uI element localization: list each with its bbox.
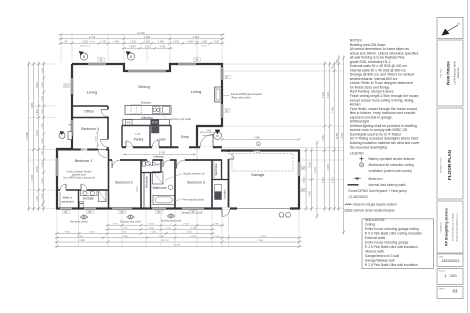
svg-text:Email rpdraughting@xtra.co.nz: Email rpdraughting@xtra.co.nz <box>456 213 459 242</box>
right dimension chain garage c <box>316 141 319 219</box>
bathroom shower <box>153 172 164 185</box>
svg-text:SCALE: SCALE <box>439 269 446 272</box>
window: bathroom bottom wall <box>152 207 166 209</box>
svg-text:INSULATION: INSULATION <box>365 218 385 222</box>
eave outlet symbol 2 <box>127 215 135 219</box>
window tag E2 bottom <box>87 210 94 214</box>
right page edge line <box>467 0 469 313</box>
svg-text:5 800: 5 800 <box>304 176 306 182</box>
annotation: gas fireplace <box>222 94 230 96</box>
svg-text:Living: Living <box>87 90 97 95</box>
title block cell: north arrow <box>437 18 463 39</box>
svg-text:Living: Living <box>191 89 201 94</box>
interior wall: walk-in/ensuite top <box>57 189 109 191</box>
svg-text:3 265: 3 265 <box>191 227 197 229</box>
svg-text:1 : 100: 1 : 100 <box>444 273 457 278</box>
door: garage internal <box>227 152 234 159</box>
svg-text:External walls: External walls <box>365 236 386 240</box>
eave outlet symbol 1 <box>80 215 88 219</box>
window: ensuite bottom wall <box>84 207 96 209</box>
door: bedroom 2 <box>112 159 120 168</box>
svg-text:1 270: 1 270 <box>112 223 118 225</box>
svg-text:14 460: 14 460 <box>337 132 339 140</box>
svg-text:6 100: 6 100 <box>315 166 317 172</box>
window tag E9 top <box>98 58 105 62</box>
wire: porch edge lines at entry <box>197 145 222 147</box>
svg-text:B: B <box>83 55 85 59</box>
svg-text:Mechanical Air extraction ceil: Mechanical Air extraction ceiling <box>369 163 415 167</box>
dim: hallway 5330 <box>123 153 196 155</box>
meter box symbol at left wall <box>59 131 72 140</box>
svg-text:Entry: Entry <box>181 135 189 139</box>
svg-text:4 560: 4 560 <box>77 236 83 238</box>
svg-text:Bathroom: Bathroom <box>153 186 167 190</box>
hot water cylinder (dark box, linen) <box>152 127 160 134</box>
window: living1 top wall <box>88 63 106 65</box>
window tag E8 top <box>194 58 201 62</box>
svg-text:Meter box: Meter box <box>369 177 384 181</box>
door: WC <box>147 159 153 166</box>
svg-text:1 800: 1 800 <box>148 227 154 229</box>
insulation box <box>362 219 434 269</box>
right dimension chain garage a <box>305 148 308 211</box>
svg-text:Wardrobe: Wardrobe <box>214 163 218 175</box>
legend meter box symbol <box>354 178 362 181</box>
svg-text:11 680: 11 680 <box>342 132 344 140</box>
svg-text:Garage: Garage <box>251 172 265 177</box>
svg-text:1 400: 1 400 <box>42 96 44 102</box>
svg-text:1 200: 1 200 <box>42 162 44 168</box>
interior wall: hallway top (load bearing) <box>122 146 222 148</box>
svg-text:N: N <box>457 22 459 26</box>
svg-text:2 270: 2 270 <box>122 227 128 229</box>
title block cell: company <box>437 201 463 253</box>
interior wall: office/bedroom4 divider <box>72 117 108 119</box>
ensuite shower <box>99 191 107 202</box>
svg-text:7 010: 7 010 <box>254 151 261 154</box>
svg-text:DRAWN BY: DRAWN BY <box>439 221 442 232</box>
svg-text:Ensuite: Ensuite <box>83 197 94 201</box>
kitchen back counter <box>123 119 170 125</box>
interior wall: walk-in/ensuite divider <box>78 190 80 209</box>
svg-text:Skylights: Skylights <box>141 101 152 105</box>
svg-text:E15: E15 <box>301 168 306 170</box>
svg-text:Entire house including garage: Entire house including garage <box>365 240 409 244</box>
interior wall: pantry/linen divider <box>149 126 151 148</box>
WC toilet <box>143 161 146 166</box>
svg-text:3 265: 3 265 <box>190 236 196 238</box>
svg-text:1 960: 1 960 <box>64 232 70 234</box>
interior wall: office-bedroom4 right <box>107 106 109 150</box>
door: office opening <box>101 109 109 117</box>
svg-text:3 150: 3 150 <box>82 41 88 43</box>
ensuite vanity + basins <box>81 191 98 196</box>
interior wall: bedroom2 wardrobe strip <box>143 173 145 209</box>
svg-text:1 900: 1 900 <box>42 178 44 184</box>
svg-text:1 400: 1 400 <box>187 41 193 43</box>
entry services marker <box>202 135 213 137</box>
extension lines right <box>223 63 344 65</box>
svg-text:1 400: 1 400 <box>135 134 141 136</box>
svg-text:Ph 03 448 8345 (027 433556): Ph 03 448 8345 (027 433556) <box>453 213 455 241</box>
svg-text:Dining: Dining <box>138 84 149 89</box>
svg-text:Ducting eave outlet: Ducting eave outlet <box>120 221 141 224</box>
svg-text:8 250: 8 250 <box>328 163 330 169</box>
interior wall: bedroom3 wardrobe right <box>221 160 223 180</box>
right dimension chain 4 <box>337 56 340 212</box>
svg-text:4 760: 4 760 <box>37 165 39 171</box>
svg-text:7 280: 7 280 <box>30 102 34 109</box>
door: front entry <box>200 134 213 148</box>
exterior wall: main house outline <box>57 64 299 209</box>
right dimension chain 1 <box>323 62 326 212</box>
svg-text:Bedroom 1: Bedroom 1 <box>75 159 93 163</box>
svg-text:03: 03 <box>453 289 458 294</box>
window: living2 right wall <box>221 67 223 80</box>
svg-text:1 100: 1 100 <box>42 193 44 199</box>
svg-text:4 180: 4 180 <box>186 232 192 234</box>
window: living1 left wall <box>71 78 73 94</box>
svg-text:6 920: 6 920 <box>260 236 266 238</box>
svg-text:4 400: 4 400 <box>37 81 39 87</box>
svg-text:Internal walls: Internal walls <box>365 249 385 253</box>
svg-text:R 2.6 Pink Batts Ultra wall in: R 2.6 Pink Batts Ultra wall insulation <box>365 263 418 267</box>
legend smoke detector symbol <box>359 156 364 161</box>
svg-text:2 110: 2 110 <box>137 185 139 191</box>
annotation: free standing bath <box>175 199 181 202</box>
svg-text:2 900: 2 900 <box>310 190 312 196</box>
left dimension chain 4 <box>42 62 45 212</box>
left dimension chain 2 <box>32 62 35 212</box>
door: bedroom 1 <box>98 148 106 157</box>
door: bedroom 4 opening <box>101 139 110 147</box>
title block cell: scale <box>437 269 463 285</box>
window: bedroom3 bottom wall <box>182 207 204 209</box>
svg-text:Alexandra: Alexandra <box>457 67 460 78</box>
cladding cedar symbol <box>345 210 353 211</box>
svg-text:1 900: 1 900 <box>206 129 213 132</box>
svg-text:F/R: F/R <box>127 122 131 124</box>
dim: entry 1900 <box>200 131 218 134</box>
svg-text:Garage/bedroom 3 wall: Garage/bedroom 3 wall <box>365 254 400 258</box>
title block cell: drawing title <box>437 108 463 199</box>
svg-text:the recessed downlights): the recessed downlights) <box>350 145 388 149</box>
window: garage right wall <box>298 162 300 176</box>
svg-text:1 120: 1 120 <box>37 195 39 201</box>
svg-text:glazed door: glazed door <box>72 173 86 177</box>
cladding integra symbol <box>345 203 353 205</box>
svg-text:Bedroom 2: Bedroom 2 <box>115 181 133 185</box>
svg-text:JOB TITLE: JOB TITLE <box>440 67 442 78</box>
svg-text:Internal load bearing walls: Internal load bearing walls <box>369 183 406 187</box>
interior wall: hallway bottom <box>109 159 223 161</box>
door: pantry <box>126 141 133 149</box>
svg-text:5 800: 5 800 <box>323 176 325 182</box>
svg-text:LEGEND:: LEGEND: <box>350 152 365 156</box>
window tag E3 bottom <box>119 210 126 214</box>
svg-text:wardrobe: wardrobe <box>61 199 74 203</box>
svg-text:Acrylic shower unit: Acrylic shower unit <box>183 172 205 176</box>
svg-text:7 990: 7 990 <box>257 240 263 242</box>
right dimension chain 2 <box>328 62 331 212</box>
svg-text:Free standing bath: Free standing bath <box>182 197 204 201</box>
svg-text:Bedroom 4: Bedroom 4 <box>81 127 99 131</box>
bottom dimension chain row 4 <box>55 236 302 239</box>
legend mechanical extraction symbol <box>359 163 363 167</box>
svg-text:7 940: 7 940 <box>332 106 334 112</box>
WC extraction symbol <box>152 162 155 165</box>
svg-text:4 780: 4 780 <box>81 149 88 152</box>
svg-text:15/03/2021: 15/03/2021 <box>442 259 460 263</box>
svg-text:5 800: 5 800 <box>332 176 334 182</box>
right dimension chain 3 <box>333 62 336 212</box>
svg-text:CLADDINGS: CLADDINGS <box>349 195 369 199</box>
svg-text:Living: Living <box>89 41 95 43</box>
title block cell: date <box>437 254 463 267</box>
interior wall: laundry top <box>212 179 229 181</box>
dim: garage 4840 <box>221 138 301 141</box>
svg-text:Living: Living <box>193 41 199 43</box>
bottom dimension chain row 1 <box>106 224 225 227</box>
window: bedroom4 left wall <box>71 120 73 136</box>
bottom dimension chain row 3 <box>55 232 215 235</box>
svg-text:4 560: 4 560 <box>193 35 200 39</box>
svg-text:1 310: 1 310 <box>145 46 151 48</box>
bottom dimension chain row 5 <box>55 241 302 244</box>
extension lines left <box>28 63 56 65</box>
svg-text:R 2.6 Pink Batts Ultra wall in: R 2.6 Pink Batts Ultra wall insulation <box>365 245 418 249</box>
door: bathroom <box>163 159 170 167</box>
skylights dashed outline <box>131 105 142 114</box>
svg-text:Wet area closed: Wet area closed <box>70 221 88 224</box>
window: bedroom1 left wall <box>56 158 58 176</box>
garage dashed roof outline <box>232 154 293 172</box>
window tag E7 right <box>223 75 230 79</box>
right dimension chain 5 overall <box>342 56 345 235</box>
svg-text:Kitchen: Kitchen <box>141 116 152 120</box>
svg-text:ventilation (outlet under eave: ventilation (outlet under eaves) <box>369 169 413 173</box>
svg-text:Wardrobe: Wardrobe <box>144 176 148 188</box>
svg-text:1 600: 1 600 <box>42 123 44 129</box>
top dimension chain row 1 overall <box>59 33 225 36</box>
svg-text:1 400: 1 400 <box>42 138 44 144</box>
legend load bearing wall symbol <box>348 184 359 186</box>
bathroom free standing bath <box>153 195 175 204</box>
door: walk-in wardrobe <box>60 184 66 191</box>
svg-text:21 950: 21 950 <box>174 245 181 247</box>
top dimension chain row 2 <box>59 37 225 40</box>
svg-text:2 510: 2 510 <box>89 232 95 234</box>
svg-text:DRAWING TITLE: DRAWING TITLE <box>439 157 442 173</box>
door: ensuite <box>81 184 87 191</box>
walk-in wardrobe shelving <box>59 192 61 207</box>
svg-text:1 800: 1 800 <box>158 41 164 43</box>
svg-text:1 400: 1 400 <box>213 41 219 43</box>
left dimension chain 1 (overall) <box>27 62 30 212</box>
window tag E13 left <box>63 84 70 88</box>
svg-text:1 300: 1 300 <box>201 41 207 43</box>
kitchen island dishwasher <box>163 107 170 114</box>
svg-text:Bedroom 4: Bedroom 4 <box>80 45 91 48</box>
section marker B centre <box>126 51 135 60</box>
window tag E1 bottom <box>63 210 70 214</box>
title block cell: sheet <box>437 287 463 299</box>
extension lines bottom <box>56 210 58 247</box>
bottom dimension chain row 2 <box>106 228 215 231</box>
interior wall: bedroom1 top (load bearing) <box>57 149 109 151</box>
svg-text:B: B <box>130 55 132 59</box>
svg-text:1 100: 1 100 <box>100 41 106 43</box>
svg-text:E16: E16 <box>301 190 306 192</box>
section tag B on garage dim <box>257 142 261 146</box>
annotation: ducting roof outlet <box>160 112 166 119</box>
svg-text:Garage/hallway wall: Garage/hallway wall <box>365 258 395 262</box>
interior wall: pantry/linen block top <box>122 125 171 127</box>
svg-text:Bedroom 3: Bedroom 3 <box>187 181 205 185</box>
svg-text:1 400: 1 400 <box>173 41 179 43</box>
svg-text:4 710: 4 710 <box>89 35 96 39</box>
kitchen island sink <box>153 107 161 114</box>
svg-text:R 5.0 Pink Batts Ultra Ceiling: R 5.0 Pink Batts Ultra Ceiling insulatio… <box>365 231 423 235</box>
svg-text:WC: WC <box>156 163 162 167</box>
window: dining top wall <box>128 70 166 72</box>
section marker B left <box>79 51 88 60</box>
downpipe circles at garage <box>279 212 284 217</box>
interior wall: linen right <box>170 126 172 148</box>
svg-text:Entire house including garage: Entire house including garage ceiling <box>365 227 419 231</box>
svg-text:3 210: 3 210 <box>121 232 127 234</box>
interior wall: bedroom1/bedroom2 divider <box>108 150 110 209</box>
interior wall: pantry left <box>121 126 123 148</box>
window tag E5 bottom <box>190 210 197 214</box>
title block cell: job title <box>437 40 463 106</box>
fireplace on living2 rear wall <box>215 87 222 102</box>
svg-text:6 200: 6 200 <box>328 91 330 97</box>
ensuite toilet <box>80 202 84 204</box>
window: entry right wall <box>221 104 223 118</box>
door: bedroom 3 <box>177 159 186 169</box>
annotation: acrylic shower unit <box>165 174 182 180</box>
window: bedroom2 bottom wall <box>112 207 132 209</box>
top dimension chain row 4 (dining) <box>122 47 173 50</box>
svg-text:5 150: 5 150 <box>30 174 34 181</box>
svg-text:Ducting roof outlet: Ducting roof outlet <box>170 117 191 121</box>
svg-text:11 440: 11 440 <box>137 31 145 35</box>
svg-text:New House: New House <box>446 61 451 85</box>
svg-text:Vertical cedar weatherboards: Vertical cedar weatherboards <box>354 209 396 213</box>
svg-text:(see SHR05 data in document): (see SHR05 data in document) <box>63 177 95 180</box>
svg-text:10 170: 10 170 <box>162 240 169 242</box>
north arrow <box>442 22 460 36</box>
window tag E15 garage <box>300 166 307 170</box>
svg-text:1 100: 1 100 <box>42 109 44 115</box>
svg-text:Battery operated smoke detecto: Battery operated smoke detector <box>369 157 416 161</box>
svg-text:2 010: 2 010 <box>130 41 136 43</box>
opening: hallway to living2 <box>179 146 190 149</box>
window tag E6 right <box>223 109 230 113</box>
kitchen oven (dark) <box>151 120 159 125</box>
interior wall: WC bottom <box>141 172 161 174</box>
top dimension chain row 3 <box>59 42 225 45</box>
svg-text:1 100: 1 100 <box>165 227 171 229</box>
svg-text:Ceiling: Ceiling <box>365 222 375 226</box>
svg-text:(Rear wall outlet): (Rear wall outlet) <box>231 95 251 99</box>
svg-text:2 300: 2 300 <box>37 129 39 135</box>
svg-text:4 980: 4 980 <box>79 240 85 242</box>
dim: bedroom4 door 1710 <box>96 131 99 148</box>
svg-text:RP Draughting Service: RP Draughting Service <box>445 208 449 246</box>
svg-text:1 400: 1 400 <box>37 108 39 114</box>
svg-text:Pantry: Pantry <box>134 138 144 142</box>
svg-text:3 960: 3 960 <box>122 236 128 238</box>
svg-text:1 070: 1 070 <box>214 236 220 238</box>
svg-text:1 300: 1 300 <box>42 82 44 88</box>
kitchen fridge F/R <box>125 120 132 125</box>
svg-text:2 240: 2 240 <box>150 232 156 234</box>
svg-text:SHEET: SHEET <box>439 288 446 290</box>
bedroom3 wardrobe sliding door <box>213 162 215 179</box>
svg-text:4 530: 4 530 <box>144 35 151 39</box>
svg-text:Ducting eave outlet: Ducting eave outlet <box>161 220 182 223</box>
bathroom vanity basin <box>168 185 173 190</box>
svg-text:E13: E13 <box>64 86 69 88</box>
interior wall: garage left <box>228 151 230 209</box>
kitchen island bench <box>125 106 171 115</box>
svg-text:4 840: 4 840 <box>254 137 261 140</box>
svg-text:1 100: 1 100 <box>144 41 150 43</box>
svg-text:Hallway: Hallway <box>153 155 164 159</box>
bottom dimension chain row 6 overall <box>55 245 302 248</box>
svg-text:11 680: 11 680 <box>25 132 29 140</box>
interior wall: bedroom3/wardrobe divider <box>211 160 213 209</box>
extension lines top <box>60 34 62 62</box>
laundry tub and machine <box>215 185 222 192</box>
svg-text:6 200: 6 200 <box>323 91 325 97</box>
window tag E16 garage <box>300 188 307 192</box>
window: walk-in bottom wall <box>60 207 72 209</box>
door: laundry external <box>222 207 230 216</box>
window: living2 top wall <box>178 63 196 65</box>
interior wall: bathroom/bedroom3 divider <box>174 160 176 209</box>
svg-text:Linen: Linen <box>157 138 165 142</box>
svg-text:M: M <box>216 134 218 138</box>
svg-text:Excea DF960 Gas fireplace + He: Excea DF960 Gas fireplace + Heat pump <box>349 189 407 193</box>
svg-text:1 400: 1 400 <box>113 41 119 43</box>
svg-text:Resene Integra facade system: Resene Integra facade system <box>354 202 398 206</box>
svg-text:2 280: 2 280 <box>158 236 164 238</box>
eave outlet symbol 3 <box>167 214 175 218</box>
svg-text:FLOOR PLAN: FLOOR PLAN <box>447 149 452 180</box>
interior wall: WC right <box>160 160 162 173</box>
svg-text:2 900: 2 900 <box>310 161 312 167</box>
svg-text:1 710: 1 710 <box>96 136 98 142</box>
svg-text:1 900: 1 900 <box>148 223 154 225</box>
interior wall: bedroom2/bathroom divider <box>140 160 142 209</box>
svg-text:1 400: 1 400 <box>42 68 44 74</box>
left dimension chain 3 <box>37 62 40 212</box>
svg-text:2 450: 2 450 <box>323 134 325 140</box>
window tag E4 bottom <box>156 210 163 214</box>
svg-text:Laundry: Laundry <box>222 189 226 199</box>
garage door opening bottom <box>237 207 290 211</box>
interior wall: office top <box>72 105 108 107</box>
svg-text:1 400: 1 400 <box>160 46 166 48</box>
svg-text:2 010: 2 010 <box>183 223 189 225</box>
door: linen <box>152 140 159 148</box>
svg-text:Office: Office <box>84 109 94 113</box>
right dimension chain garage b <box>310 148 313 211</box>
svg-text:1 400: 1 400 <box>129 46 135 48</box>
